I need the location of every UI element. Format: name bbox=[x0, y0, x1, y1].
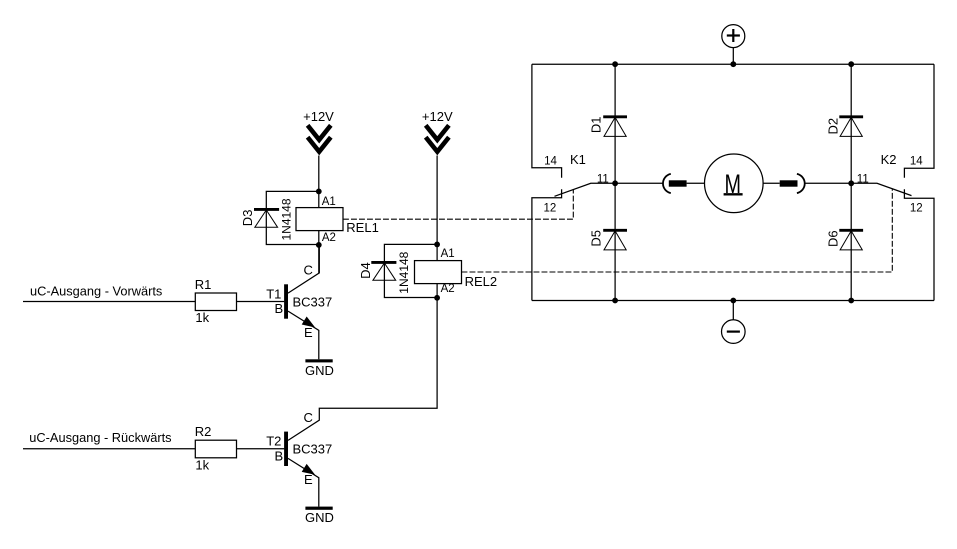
svg-text:D5: D5 bbox=[589, 230, 604, 247]
svg-text:T1: T1 bbox=[266, 286, 281, 301]
resistor R1 bbox=[195, 293, 236, 311]
wire R2 to T2 base bbox=[237, 448, 285, 450]
svg-text:1k: 1k bbox=[195, 310, 209, 325]
svg-text:REL1: REL1 bbox=[346, 220, 379, 235]
svg-text:B: B bbox=[275, 448, 284, 463]
junction 11 node K1 bbox=[612, 180, 618, 186]
svg-text:BC337: BC337 bbox=[293, 294, 333, 309]
diode D4 bbox=[371, 262, 396, 280]
wire +12V to REL2 A1 bbox=[436, 156, 438, 261]
diode D3 bbox=[254, 209, 279, 227]
wire motor right to connector bbox=[763, 182, 780, 184]
svg-text:K1: K1 bbox=[570, 152, 586, 167]
svg-text:uC-Ausgang - Rückwärts: uC-Ausgang - Rückwärts bbox=[29, 430, 171, 445]
wire +12V to REL1 A1 bbox=[318, 156, 320, 208]
wire D3 branch bbox=[266, 191, 319, 244]
junction REL2 A1 bbox=[434, 242, 440, 248]
wire left rail lower + 12 stub bbox=[532, 189, 562, 300]
svg-text:A1: A1 bbox=[441, 248, 455, 260]
wire - to bottom rail bbox=[732, 301, 734, 321]
transistor T2 base bar bbox=[284, 432, 288, 466]
svg-text:D3: D3 bbox=[240, 210, 255, 227]
svg-text:12: 12 bbox=[910, 202, 923, 214]
arrow T2 emitter bbox=[303, 465, 314, 474]
junction 11 node K2 bbox=[848, 180, 854, 186]
wire right rail lower + 12 stub bbox=[904, 189, 934, 300]
svg-text:12: 12 bbox=[544, 202, 557, 214]
wire REL2 A2 stub bbox=[436, 284, 438, 298]
svg-text:R2: R2 bbox=[195, 424, 212, 439]
diode D2 bbox=[839, 117, 863, 137]
junction REL2 A2 bbox=[434, 295, 440, 301]
arrow T1 emitter bbox=[303, 317, 314, 326]
svg-text:D2: D2 bbox=[826, 118, 841, 135]
wire right rail upper bbox=[904, 64, 934, 178]
svg-text:uC-Ausgang - Vorwärts: uC-Ausgang - Vorwärts bbox=[30, 284, 162, 299]
wire D6 column bbox=[850, 183, 852, 300]
junction REL1 A2 bbox=[316, 242, 322, 248]
wire connector to 11 node K2 bbox=[805, 182, 851, 184]
svg-text:14: 14 bbox=[544, 155, 557, 167]
motor M bbox=[705, 154, 764, 213]
svg-text:1k: 1k bbox=[195, 457, 209, 472]
svg-text:T2: T2 bbox=[266, 434, 281, 449]
junction top center bbox=[730, 61, 736, 67]
wire T2 collector to REL2 A2 bbox=[288, 298, 437, 441]
svg-text:11: 11 bbox=[597, 173, 609, 185]
wire T1 collector bbox=[288, 245, 319, 293]
wire T2 emitter bbox=[288, 458, 319, 506]
wire bottom rail bbox=[532, 300, 934, 302]
svg-text:B: B bbox=[275, 301, 284, 316]
svg-text:R1: R1 bbox=[195, 277, 212, 292]
relay coil REL2 bbox=[415, 261, 462, 284]
svg-text:GND: GND bbox=[305, 363, 334, 378]
junction top rail D2 bbox=[848, 61, 854, 67]
svg-text:E: E bbox=[304, 472, 313, 487]
svg-text:D6: D6 bbox=[826, 230, 841, 247]
svg-text:D1: D1 bbox=[589, 116, 604, 133]
resistor R2 bbox=[195, 440, 236, 458]
svg-text:K2: K2 bbox=[881, 152, 897, 167]
wire connector to motor left bbox=[687, 182, 705, 184]
svg-text:A2: A2 bbox=[441, 283, 455, 295]
contact arm K1 bbox=[555, 183, 616, 196]
junction REL1 A1 bbox=[316, 189, 322, 195]
svg-text:1N4148: 1N4148 bbox=[280, 198, 294, 240]
wire + to top rail bbox=[732, 48, 734, 65]
diode D1 bbox=[603, 117, 627, 137]
wire T1 emitter bbox=[288, 311, 319, 359]
svg-text:A2: A2 bbox=[322, 232, 336, 244]
svg-text:+12V: +12V bbox=[422, 109, 453, 124]
wire R1 to T1 base bbox=[237, 301, 285, 303]
wire D5 column bbox=[614, 183, 616, 300]
svg-text:+12V: +12V bbox=[303, 109, 334, 124]
wire D2 column bbox=[850, 64, 852, 183]
svg-text:BC337: BC337 bbox=[293, 442, 333, 457]
power +12V (1) bbox=[303, 109, 334, 152]
wire left rail upper bbox=[532, 64, 562, 178]
junction bottom center bbox=[730, 298, 736, 304]
supply terminal - bbox=[722, 320, 746, 344]
svg-text:14: 14 bbox=[910, 155, 923, 167]
svg-text:A1: A1 bbox=[322, 196, 336, 208]
wire REL1 A2 to T1 collector bbox=[318, 231, 320, 273]
wire 11 node K1 to motor bbox=[615, 182, 662, 184]
svg-text:E: E bbox=[304, 325, 313, 340]
transistor T1 base bar bbox=[284, 284, 288, 318]
junction bottom rail D5 bbox=[612, 298, 618, 304]
svg-text:11: 11 bbox=[857, 173, 869, 185]
svg-text:GND: GND bbox=[305, 510, 334, 525]
svg-text:C: C bbox=[304, 263, 313, 278]
svg-text:D4: D4 bbox=[358, 262, 373, 279]
wire top rail bbox=[532, 63, 934, 65]
contact arm K2 bbox=[851, 183, 911, 195]
relay coil REL1 bbox=[296, 208, 343, 231]
dashed link REL2 to K2 bbox=[462, 189, 893, 272]
wire D4 branch bbox=[384, 244, 437, 297]
svg-text:REL2: REL2 bbox=[465, 274, 498, 289]
diode D5 bbox=[603, 230, 627, 250]
dashed link REL1 to K1 bbox=[343, 189, 573, 219]
svg-text:1N4148: 1N4148 bbox=[397, 251, 411, 293]
power +12V (2) bbox=[422, 109, 453, 152]
diode D6 bbox=[839, 230, 863, 250]
ground GND1 bbox=[305, 359, 332, 362]
wire input2 to R2 bbox=[23, 448, 195, 450]
supply terminal + bbox=[722, 25, 745, 48]
wire input1 to R1 bbox=[23, 301, 195, 303]
wire D1 column bbox=[614, 64, 616, 183]
connector left (motor brush) bbox=[663, 174, 687, 193]
junction top rail D1 bbox=[612, 61, 618, 67]
svg-text:C: C bbox=[304, 410, 313, 425]
ground GND2 bbox=[305, 507, 332, 510]
connector right (motor brush) bbox=[780, 174, 805, 193]
junction bottom rail D6 bbox=[848, 298, 854, 304]
